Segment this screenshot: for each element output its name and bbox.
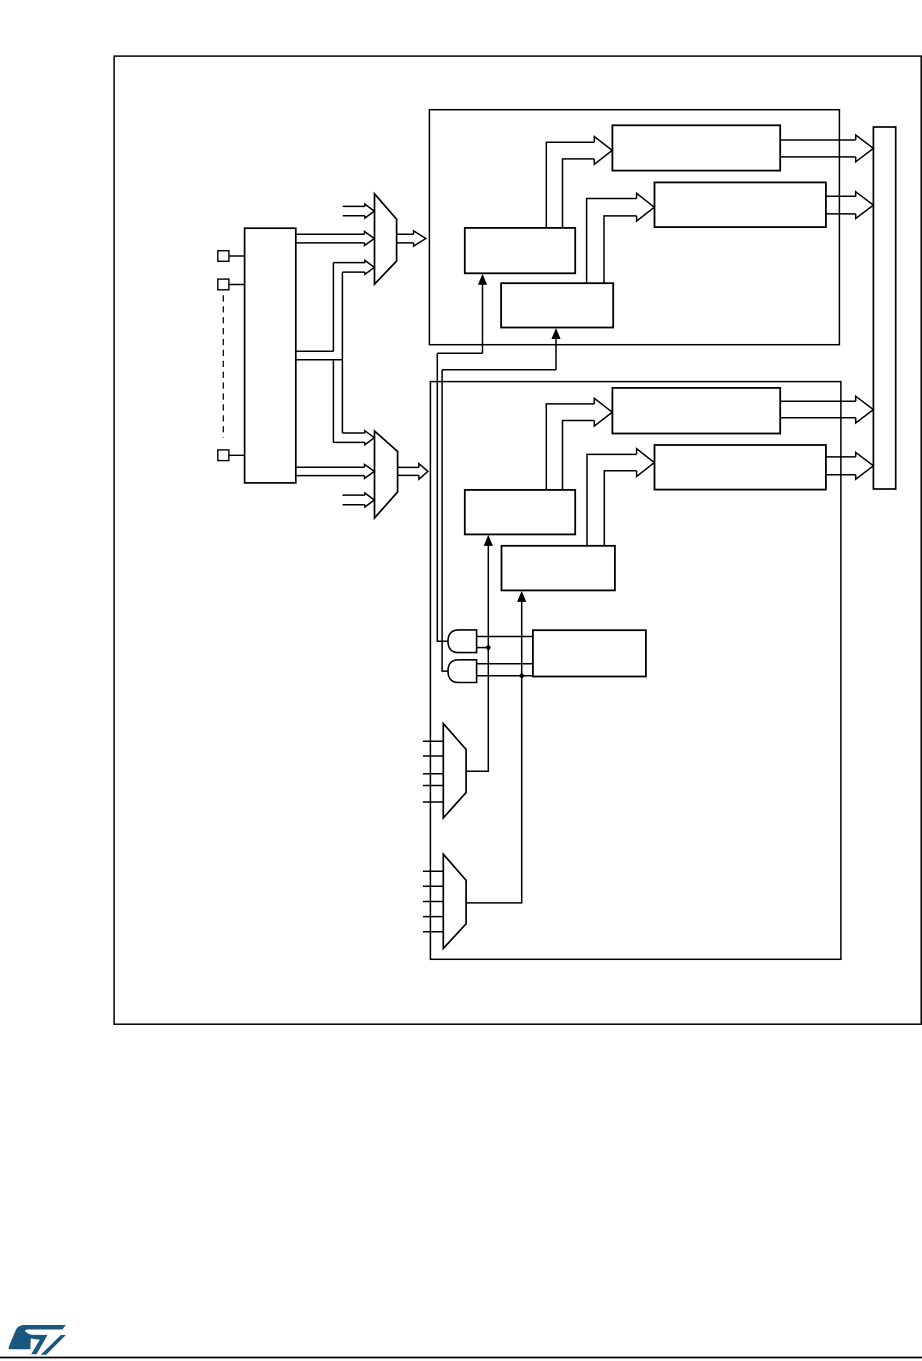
box L lower timer block (430, 382, 841, 960)
wire bus stub H2 (296, 359, 343, 361)
block L-R8 counter (502, 546, 615, 591)
bus arrow U-R1 output (780, 139, 856, 141)
block L-R5 (612, 388, 780, 434)
wire G2 input A from R9 (477, 663, 533, 665)
gate G1 (448, 630, 477, 653)
junction dot J1 (486, 645, 491, 650)
box U upper timer block (429, 110, 839, 345)
bus arrow L-R8 to L-R6 (587, 454, 637, 545)
pin square P2 (218, 279, 229, 290)
bus arrow M1 output (397, 233, 414, 235)
block U-R2 (655, 182, 826, 227)
pin square P1 (218, 251, 229, 262)
wire M3 input tick 4 (423, 785, 443, 787)
block U-R3 prescaler (465, 228, 575, 273)
wire pin P3 stub (229, 454, 245, 456)
wire bus vertical V3 down to M2 (332, 360, 334, 443)
arrow clock into L-R8 (521, 600, 523, 603)
wire M4 input tick 5 (423, 931, 443, 933)
pin square P3 (218, 450, 229, 461)
block R9 trigger controller (533, 630, 646, 676)
wire M4 input tick 4 (423, 916, 443, 918)
wire clock elbow to U-R3 (437, 352, 482, 354)
bus arrow M2 input 2 from B1 (296, 466, 365, 468)
wire G1 output up to U-R3 clock (437, 353, 448, 641)
arrow clock into U-R4 (555, 338, 557, 370)
wire pin P1 stub (229, 255, 245, 257)
footer rule (0, 1357, 922, 1359)
wire G1 input B from J1 (477, 647, 489, 649)
mux M4 trapezoid (443, 854, 466, 948)
wire M4 input tick 2 (423, 885, 443, 887)
bus arrow M2 output (398, 466, 419, 468)
wire bus vertical V2 M1 to M2 (341, 272, 343, 433)
wire pin P2 stub (229, 284, 245, 286)
bus arrow U-R2 output (826, 195, 856, 197)
bus arrow M2 input 3 (343, 494, 365, 496)
gate G2 (448, 660, 477, 683)
block R-out tall right rectangle (873, 127, 895, 489)
dashed line pins ellipsis (222, 295, 224, 437)
mux M1 trapezoid (375, 194, 397, 284)
wire bus stub H1 (296, 350, 334, 352)
wire G1 input A from R9 (477, 636, 533, 638)
bus arrow U-R3 to U-R1 (546, 142, 594, 228)
arrow clock into L-R7 (487, 544, 489, 547)
wire M3 input tick 3 (423, 773, 443, 775)
block L-R7 prescaler (465, 490, 575, 535)
block B1 register/GPIO port (245, 228, 296, 483)
wire bus vertical V1 up to M1 (332, 263, 334, 352)
ST logo (9, 1325, 66, 1354)
wire clock elbow to U-R4 (442, 369, 556, 371)
wire M3 input tick 5 (423, 801, 443, 803)
bus arrow M1 input 3 elbow (333, 262, 365, 264)
block L-R6 (655, 445, 826, 490)
block U-R1 (612, 125, 780, 170)
wire M3 output elbow (466, 546, 488, 772)
bus arrow M2 input 1 elbow (342, 432, 365, 434)
bus arrow M1 input 1 (343, 205, 365, 207)
mux M2 trapezoid (375, 431, 398, 518)
arrow clock into U-R3 (482, 284, 484, 354)
wire G2 input B through J2 (477, 675, 533, 677)
wire M4 input tick 1 (423, 870, 443, 872)
wire M4 input tick 3 (423, 901, 443, 903)
junction dot J2 (519, 674, 524, 679)
wire M3 input tick 1 (423, 740, 443, 742)
wire G2 output up to U-R4 clock (442, 370, 448, 671)
wire M4 output elbow (466, 602, 522, 903)
mux M3 trapezoid (443, 724, 466, 818)
figure outer border frame (114, 56, 921, 1024)
bus arrow L-R7 to L-R5 (546, 404, 594, 490)
bus arrow L-R6 output (826, 456, 856, 458)
bus arrow M1 input 2 from B1 (296, 233, 365, 235)
bus arrow L-R5 output (780, 400, 856, 402)
wire M3 input tick 2 (423, 755, 443, 757)
block U-R4 counter (501, 283, 613, 327)
bus arrow U-R4 to U-R2 (587, 199, 637, 284)
